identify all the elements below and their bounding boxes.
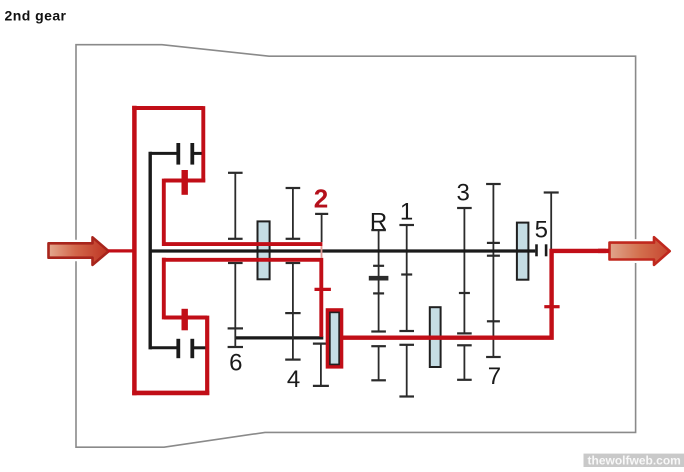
- upper clutch engagement cross: [181, 170, 187, 195]
- input arrow halo: [49, 237, 109, 265]
- svg-text:5: 5: [535, 217, 548, 244]
- hollow shaft lower red line + gear 2 driven riser: [162, 260, 321, 337]
- upper clutch plate 1: [176, 143, 180, 165]
- input arrow: [49, 237, 109, 265]
- gear 7 wheel column: [486, 184, 501, 357]
- lower clutch hub line: [150, 346, 176, 349]
- gear 6 driven wheel: [228, 263, 243, 347]
- output gear column (top): [544, 193, 559, 250]
- gear 2 drive wheel: [315, 214, 328, 242]
- svg-text:2nd gear: 2nd gear: [5, 8, 67, 24]
- hollow shaft upper red line: [162, 242, 322, 246]
- svg-text:7: 7: [488, 363, 501, 390]
- gear 2 driven wheel tick (red): [315, 288, 331, 291]
- gear 3 lower wheel: [457, 345, 472, 380]
- lower clutch plate 2: [190, 339, 194, 358]
- gear 1 wheel column: [399, 225, 414, 331]
- input shaft segment (red): [108, 249, 134, 252]
- gear 1 lower wheel: [399, 345, 414, 397]
- lower clutch plate 1: [176, 339, 180, 358]
- black clutch hub vertical: [148, 152, 151, 350]
- gear 4 driven wheel: [285, 263, 300, 360]
- upper clutch red output line: [164, 179, 205, 183]
- engaged synchro sleeve: [330, 312, 339, 364]
- svg-text:1: 1: [400, 199, 413, 226]
- gear R lower wheel: [371, 346, 386, 380]
- upper clutch drum-side link: [194, 152, 202, 155]
- svg-text:3: 3: [457, 179, 470, 206]
- lower synchro sleeve (1/3): [430, 307, 441, 367]
- gear 2 lower black stub: [313, 344, 329, 386]
- gear 5 synchro sleeve: [517, 223, 529, 280]
- output arrow: [610, 237, 670, 265]
- gear R wheel column: [369, 230, 389, 331]
- engaged synchro red box: [328, 310, 342, 366]
- output countershaft red path: [341, 251, 610, 338]
- upper clutch hub line: [150, 152, 176, 155]
- clutch drum red box bottom edge: [132, 391, 209, 396]
- red riser lower (hollow shaft to lower clutch line): [162, 258, 166, 320]
- gear 5 clutch plate 2: [545, 244, 548, 256]
- watermark: thewolfweb.com: [584, 454, 684, 467]
- clutch drum lower right edge: [205, 316, 209, 395]
- svg-text:thewolfweb.com: thewolfweb.com: [588, 453, 681, 467]
- lower clutch drum-side link: [194, 346, 205, 349]
- output arrow halo: [610, 237, 670, 265]
- svg-text:R: R: [370, 209, 387, 236]
- output shaft red line into arrow: [598, 249, 609, 253]
- gear 2 shaft crossing (faint): [321, 246, 323, 258]
- svg-text:4: 4: [287, 366, 300, 393]
- lower countershaft (black part): [235, 336, 324, 339]
- svg-text:6: 6: [229, 349, 242, 376]
- clutch drum upper right edge: [201, 106, 205, 182]
- gear 5 clutch plate 1: [535, 244, 538, 256]
- lower clutch red line: [164, 316, 207, 320]
- gear 4 drive wheel: [286, 188, 301, 239]
- clutch drum red box left edge: [132, 106, 137, 395]
- gear 6 drive wheel: [228, 173, 243, 239]
- synchro sleeve 6/4 (hollow shaft): [258, 221, 270, 279]
- lower clutch engagement cross: [181, 309, 187, 331]
- gear 3 wheel column: [457, 208, 472, 333]
- upper clutch plate 2: [190, 143, 194, 165]
- svg-text:2: 2: [314, 184, 328, 214]
- main shaft (black, solid input shaft): [150, 249, 535, 252]
- clutch drum red box top edge: [132, 106, 203, 110]
- red riser upper (to hollow shaft): [162, 179, 166, 246]
- gearbox housing outline: [76, 45, 636, 448]
- output shaft red tick: [544, 305, 559, 308]
